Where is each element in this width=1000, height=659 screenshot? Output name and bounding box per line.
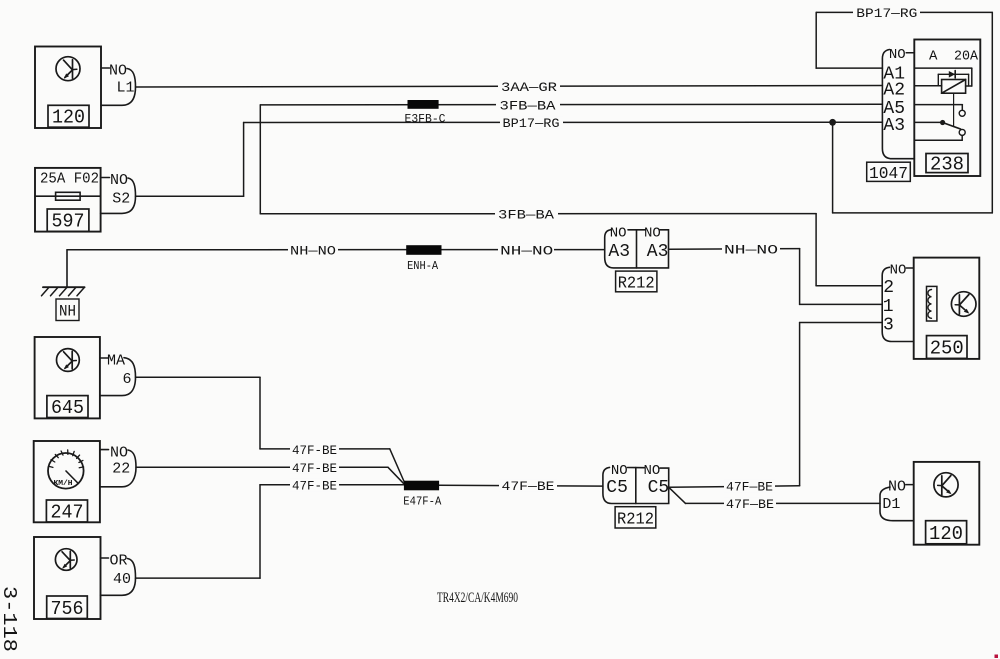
svg-text:C5: C5	[648, 478, 670, 498]
wire label 47F-BE centre	[499, 479, 557, 491]
wire label NH-NO right	[722, 243, 780, 256]
svg-text:A3: A3	[647, 242, 669, 262]
wire 47F-BE from R212 C5 to corner	[669, 486, 800, 487]
relay 238 box	[914, 40, 980, 177]
heater element symbol	[927, 286, 937, 321]
relay lower contact lead	[961, 135, 963, 140]
relay internal A5 wire to fixed contact	[914, 104, 962, 106]
pin L1 of 120 with NO wire label	[101, 63, 136, 106]
wire 47F-BE after splice to R212 C5	[439, 484, 603, 487]
svg-text:ENH-A: ENH-A	[407, 260, 438, 273]
svg-text:3-118: 3-118	[0, 586, 20, 652]
K symbol of 250	[951, 292, 976, 317]
svg-text:NH—NO: NH—NO	[500, 243, 553, 258]
svg-text:250: 250	[930, 338, 964, 360]
wire label 47F-BE right lower	[724, 497, 776, 509]
wire from 645 pin 6	[136, 376, 261, 378]
svg-text:A3: A3	[608, 242, 630, 262]
svg-text:47F-BE: 47F-BE	[292, 443, 337, 458]
wire horizontal into 250 pin 2	[816, 285, 882, 287]
pin S2 of 597 with NO wire label	[101, 172, 136, 213]
wire 3FB-BA lower horizontal	[260, 213, 816, 215]
svg-text:120: 120	[929, 523, 963, 545]
238 designation box	[926, 154, 968, 173]
svg-text:NO: NO	[110, 444, 128, 461]
fuse 597 25A F02	[35, 168, 101, 233]
wire label 47F-BE right upper	[724, 480, 775, 492]
svg-text:BP17—RG: BP17—RG	[856, 6, 917, 21]
svg-text:20A: 20A	[954, 49, 979, 65]
component 756 (clock/gauge unit)	[34, 537, 101, 620]
wire vertical riser from 756	[259, 485, 261, 578]
wire vertical 645 drop	[259, 377, 261, 449]
svg-text:NH—NO: NH—NO	[724, 243, 778, 258]
svg-text:47F—BE: 47F—BE	[502, 479, 555, 494]
ground NH	[42, 250, 85, 321]
wire 47F-BE to 120 pin D1	[686, 502, 881, 504]
wire label 3AA-GR	[498, 80, 560, 93]
wire 3FB-BA upper horizontal to relay A5	[260, 103, 882, 106]
relay internal A1 feed bracket	[914, 67, 972, 69]
svg-text:NO: NO	[110, 172, 128, 189]
connector R212 (A3/A3 inline)	[605, 230, 669, 268]
wire horizontal from 250 pin 3	[800, 322, 883, 324]
relay internal A2 wire to coil	[914, 85, 941, 87]
wire vertical from pin 3 down to 47F-BE row	[799, 323, 801, 486]
svg-text:R212: R212	[617, 511, 654, 530]
wire NH-NO from R212 A3 to corner	[669, 248, 800, 251]
relay coil	[942, 80, 966, 94]
svg-text:R212: R212	[618, 275, 655, 294]
wire label NH-NO left	[288, 244, 338, 257]
svg-text:OR: OR	[109, 553, 127, 570]
svg-text:MA: MA	[107, 353, 125, 370]
wire label BP17-RG on relay loop top	[853, 6, 920, 19]
component 645 (clock/gauge unit)	[35, 337, 100, 419]
wire 47F-BE row1	[260, 448, 390, 450]
svg-text:1047: 1047	[869, 165, 908, 184]
wire label 47F-BE row3	[290, 479, 339, 491]
wire label 3FB-BA lower	[495, 208, 558, 220]
wire label NH-NO middle	[498, 243, 554, 256]
wire 47F-BE row3	[260, 484, 404, 486]
splice E47F-A	[404, 481, 439, 491]
R212 designation box	[615, 507, 656, 528]
120 designation box	[926, 521, 967, 544]
wire diagonal from C5 to lower branch	[669, 487, 686, 503]
svg-text:TR4X2/CA/K4M690: TR4X2/CA/K4M690	[437, 590, 518, 606]
svg-text:238: 238	[930, 154, 964, 176]
relay suppression diode branch	[938, 73, 968, 75]
svg-text:BP17—RG: BP17—RG	[503, 116, 560, 131]
wire label 47F-BE row1	[290, 443, 339, 455]
svg-text:E3FB-C: E3FB-C	[405, 113, 446, 126]
svg-text:KM/H: KM/H	[54, 480, 73, 488]
svg-text:NO: NO	[888, 479, 906, 496]
svg-text:47F-BE: 47F-BE	[292, 479, 337, 494]
wire diagonal row1 into splice	[390, 449, 405, 483]
junction dot on BP17-RG	[829, 119, 836, 126]
svg-text:597: 597	[52, 211, 85, 233]
svg-text:NO: NO	[109, 63, 127, 80]
svg-text:L1: L1	[116, 80, 134, 97]
K symbol of 120	[934, 473, 958, 497]
scan speck	[995, 655, 999, 659]
wire label 3FB-BA upper	[496, 99, 560, 112]
wire horizontal into 250 pin 1	[800, 303, 883, 305]
wire vertical down to 250 pin 2	[815, 214, 817, 286]
component 247 (speedometer)	[34, 441, 100, 523]
pin 40 of 756 with OR wire label	[101, 553, 136, 596]
svg-text:3FB—BA: 3FB—BA	[500, 98, 556, 113]
svg-text:NO: NO	[889, 47, 906, 63]
wire from 756 pin 40	[136, 577, 261, 579]
svg-text:756: 756	[51, 598, 84, 620]
wire BP17-RG loop bottom	[833, 212, 993, 214]
wire relay A1 feed horizontal	[816, 67, 882, 69]
svg-text:6: 6	[122, 371, 131, 388]
wire NH-NO from ground to R212 A3	[67, 249, 605, 251]
wire L1 to relay A2 (3AA-GR)	[136, 86, 883, 88]
component 250 box	[914, 258, 980, 359]
connector R212 (C5/C5 inline)	[603, 467, 669, 503]
wire BP17-RG loop right vertical	[991, 12, 993, 213]
relay switch blade	[943, 123, 961, 130]
svg-text:NH—NO: NH—NO	[290, 244, 336, 259]
svg-text:47F—BE: 47F—BE	[726, 497, 774, 512]
wire from fuse pin S2	[136, 195, 244, 197]
connector 1047 outline	[882, 50, 914, 159]
wire 47F-BE row2 from 247 pin 22	[136, 466, 388, 468]
svg-text:C5: C5	[606, 478, 628, 498]
R212 designation box	[616, 271, 657, 292]
svg-text:40: 40	[113, 571, 131, 588]
wire BP17-RG loop top	[816, 11, 992, 13]
pin 6 of 645 with MA wire label	[100, 353, 136, 396]
splice E3FB-C	[408, 100, 439, 109]
wire label BP17-RG	[500, 116, 563, 128]
svg-text:3FB—BA: 3FB—BA	[498, 207, 554, 222]
svg-text:3AA—GR: 3AA—GR	[501, 80, 557, 95]
svg-text:25A F02: 25A F02	[40, 170, 99, 187]
svg-text:645: 645	[51, 397, 84, 419]
pin D1 connector with NO label	[880, 487, 914, 521]
pin 22 of 247 with NO wire label	[100, 444, 136, 487]
splice ENH-A	[406, 245, 441, 255]
svg-text:S2: S2	[112, 191, 130, 208]
wire BP17-RG loop drop to junction	[832, 122, 834, 213]
svg-text:22: 22	[112, 460, 130, 477]
svg-text:47F—BE: 47F—BE	[726, 480, 773, 495]
svg-text:D1: D1	[882, 496, 900, 513]
svg-text:NO: NO	[610, 226, 627, 242]
relay armature link	[953, 93, 955, 126]
component 120 (top-left clock/gauge unit)	[35, 47, 101, 129]
svg-text:NO: NO	[611, 463, 628, 479]
svg-text:NO: NO	[644, 226, 661, 242]
wire vertical down to 250 pin 1	[799, 249, 801, 305]
wire diagonal row2 into splice	[388, 467, 404, 484]
wire 3FB-BA vertical riser	[259, 105, 261, 214]
relay internal A3 wire to pivot	[914, 121, 941, 123]
svg-text:1: 1	[883, 297, 894, 317]
svg-text:A: A	[929, 49, 938, 65]
svg-text:247: 247	[51, 501, 84, 523]
svg-text:A2: A2	[883, 80, 905, 100]
wire BP17-RG vertical riser from fuse	[243, 123, 245, 197]
svg-text:E47F-A: E47F-A	[403, 496, 441, 509]
250 designation box	[927, 336, 968, 359]
svg-text:A3: A3	[883, 116, 905, 136]
1047 designation box	[867, 162, 911, 181]
svg-text:3: 3	[883, 316, 894, 336]
svg-text:NH: NH	[59, 302, 76, 320]
svg-text:47F-BE: 47F-BE	[292, 461, 337, 476]
wire label 47F-BE row2	[290, 461, 339, 473]
component 120 (bottom-right clock unit)	[914, 462, 980, 545]
wire BP17-RG horizontal to relay A3	[244, 121, 883, 123]
svg-text:NO: NO	[643, 463, 660, 479]
svg-text:2: 2	[883, 278, 894, 298]
connector of 250 outline	[882, 267, 914, 341]
svg-text:NO: NO	[890, 262, 907, 278]
wire BP17-RG loop left vertical	[815, 12, 817, 68]
svg-text:120: 120	[52, 107, 85, 129]
